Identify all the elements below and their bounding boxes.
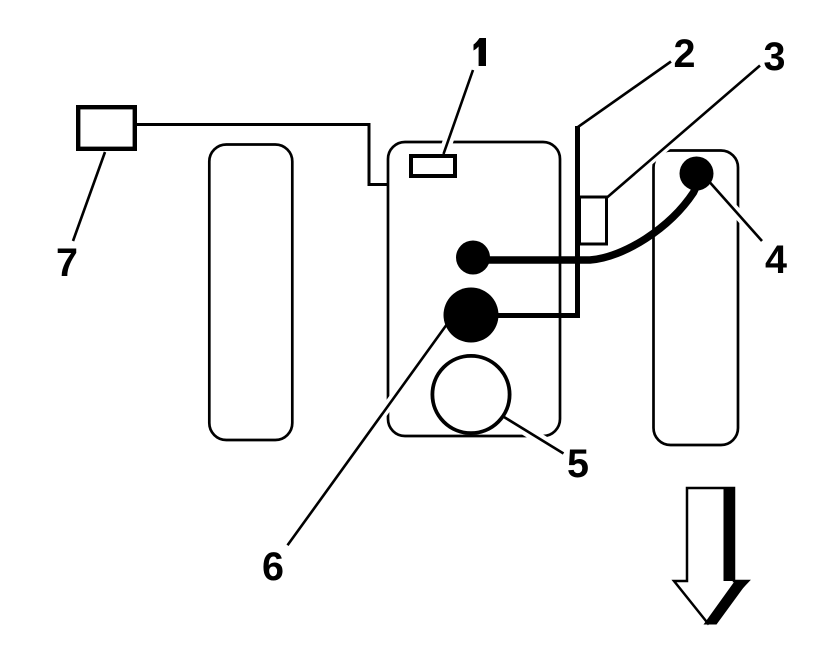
leader 1 [444,70,474,154]
svg-text:6: 6 [262,545,284,589]
component 1 rect [411,156,455,176]
callout 1 (drawn glyph) [474,38,487,66]
leader 6 casing [288,320,451,545]
svg-text:2: 2 [674,32,696,76]
big dot 6 [444,288,499,343]
arrow shaft shadow band [724,488,735,581]
right rounded panel [654,151,739,446]
circle 5 [432,356,509,433]
svg-text:5: 5 [567,442,589,486]
wire from component 7 [137,125,387,185]
leader 3 casing [607,66,760,198]
leader 5 [504,417,564,454]
leader 4 [706,178,762,241]
leader 6 [288,320,451,545]
vertical line 2 [575,126,580,318]
horizontal line from dot 6 [490,313,580,318]
component 3 rect [580,197,607,244]
arrow head shadow band [704,580,750,625]
small dot on cable [456,241,490,275]
leader 3 [607,66,760,198]
leader 5 casing [504,417,564,454]
leader 4 casing [706,178,762,241]
svg-text:3: 3 [764,35,786,79]
grommet dot 4 [680,157,714,191]
leader 7 [73,152,105,241]
leader 1 casing [444,70,474,154]
svg-text:4: 4 [765,238,787,282]
left rounded panel [209,145,292,441]
center panel [388,142,560,436]
cable curve to grommet 4 [473,186,697,260]
svg-text:7: 7 [56,241,78,285]
arrow outline [674,488,748,624]
component 7 box [78,107,135,149]
leader 2 [578,62,671,128]
